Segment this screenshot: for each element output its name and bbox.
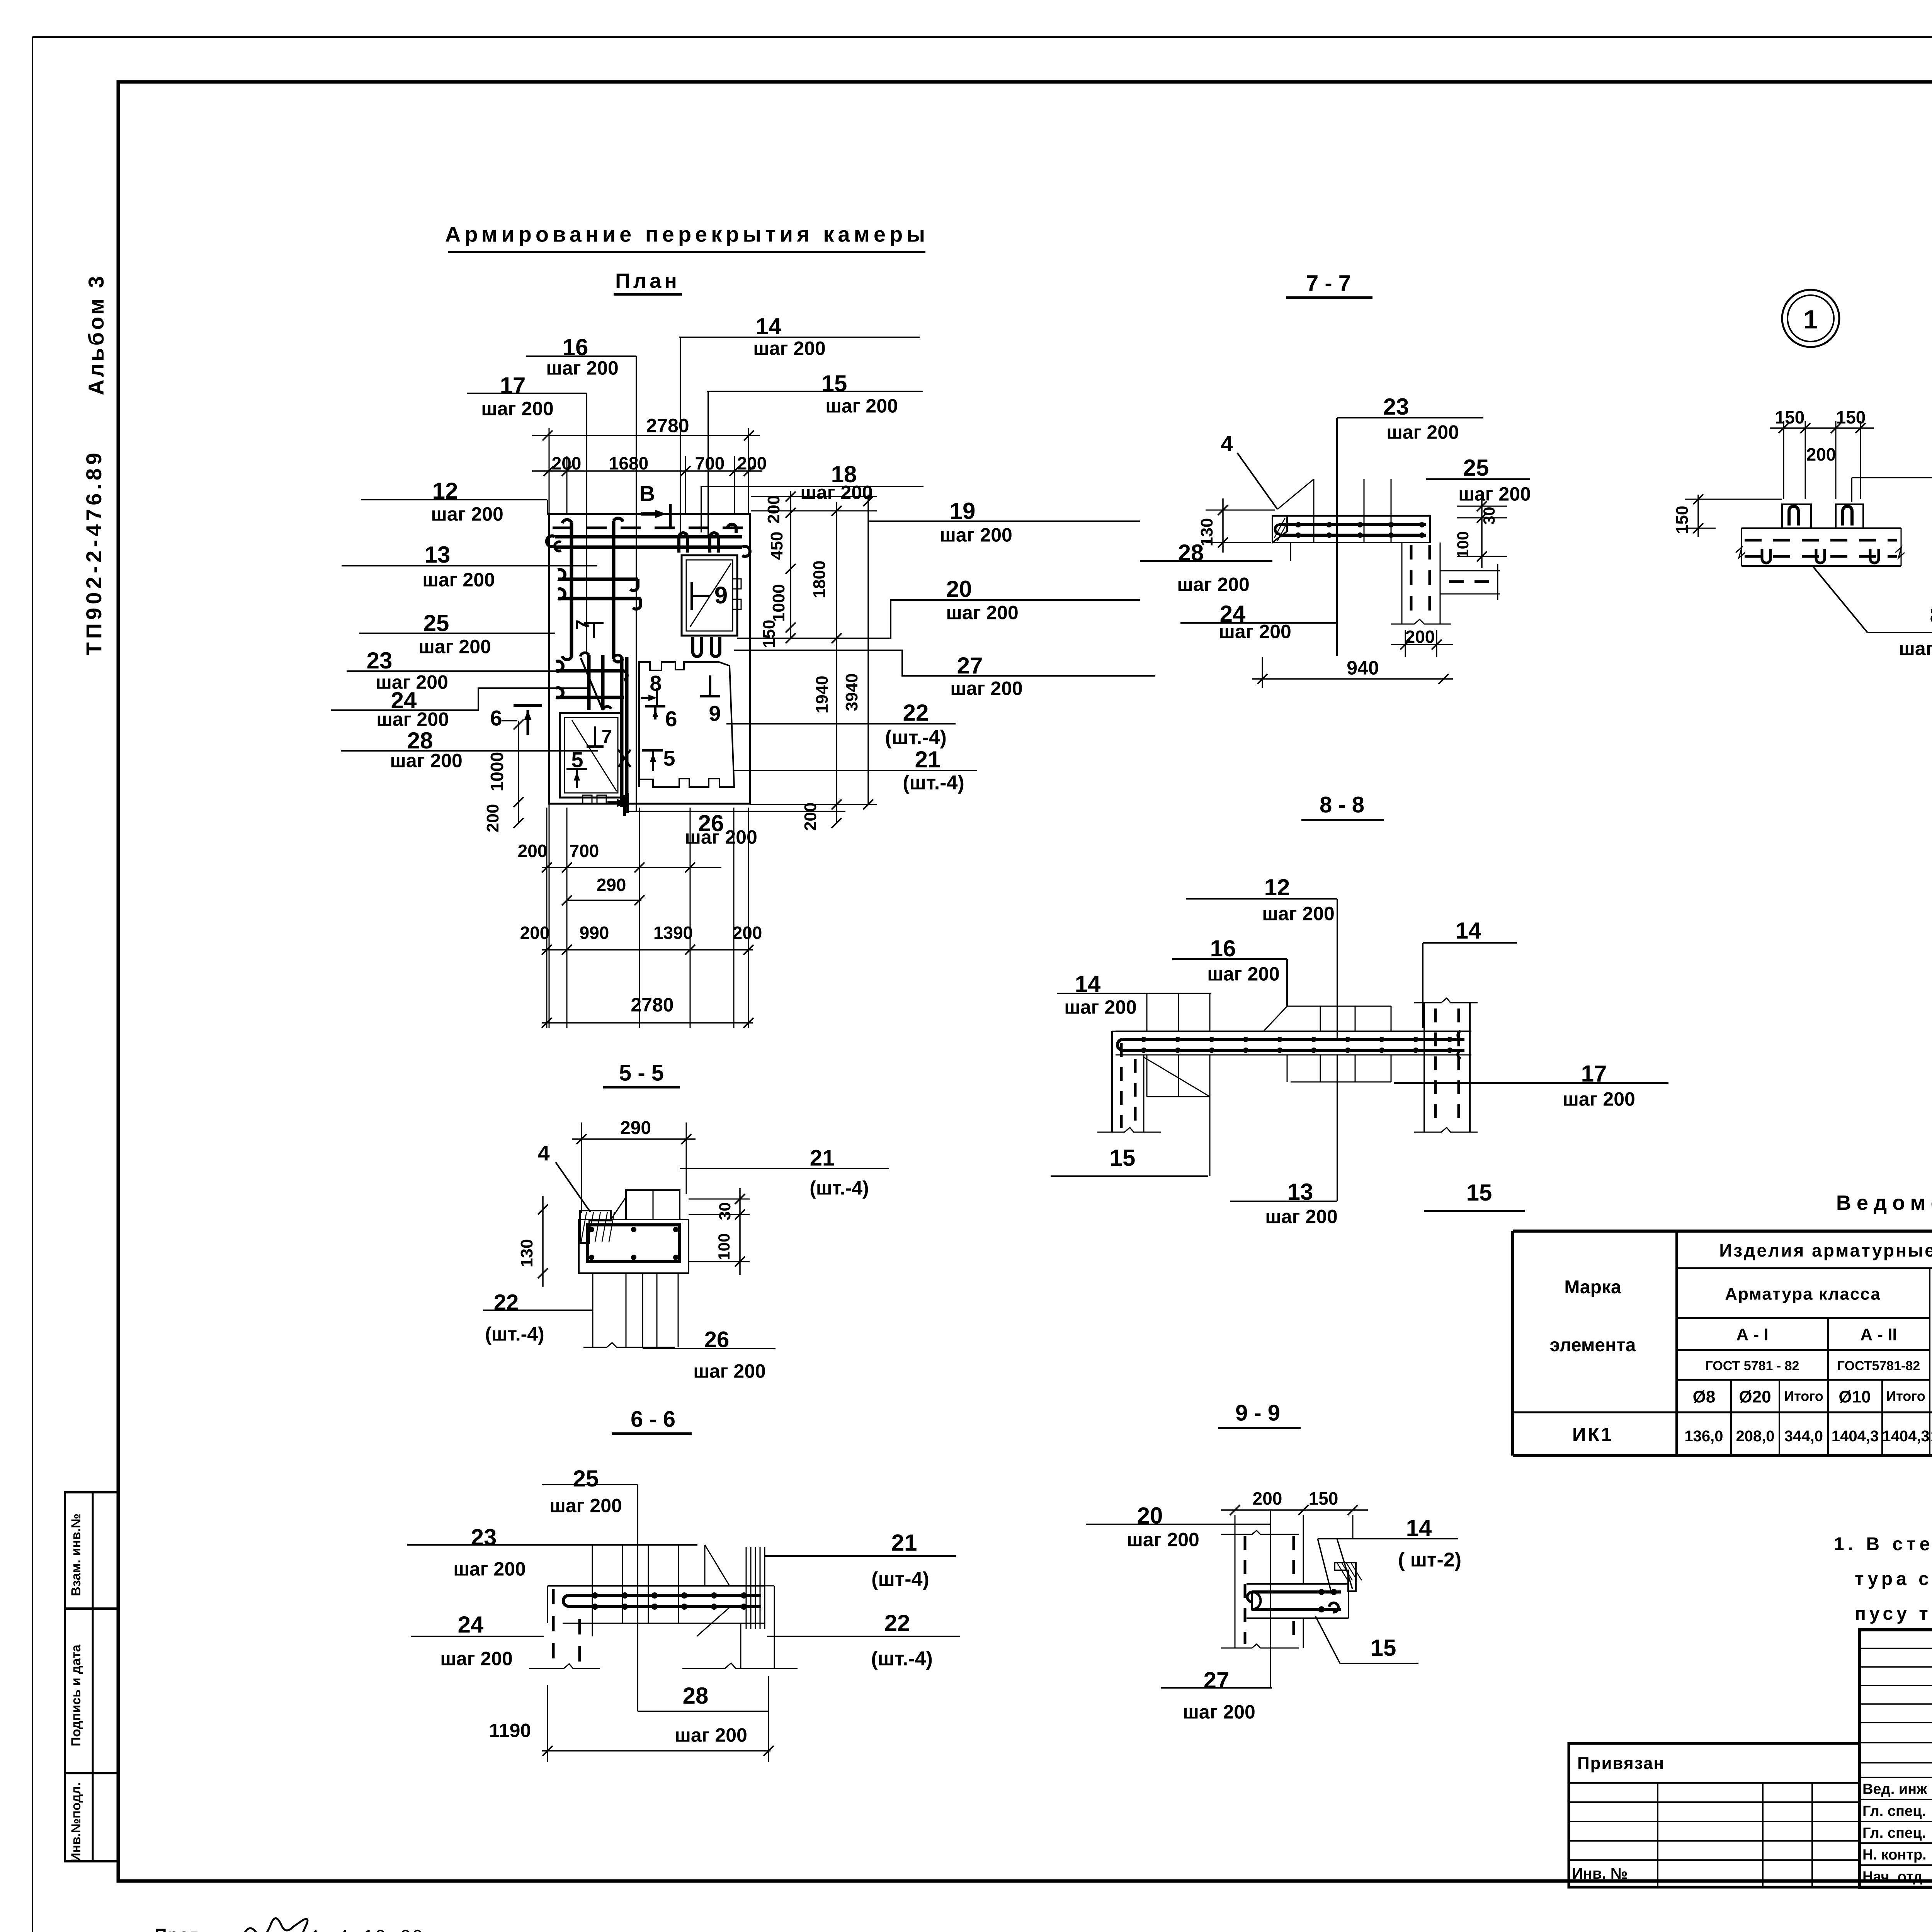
svg-text:Подпись и дата: Подпись и дата [69,1644,83,1747]
svg-text:шаг 200: шаг 200 [825,395,898,417]
svg-text:344,0: 344,0 [1784,1428,1823,1445]
svg-text:14: 14 [1406,1515,1432,1541]
svg-text:шаг 200: шаг 200 [546,357,619,379]
svg-text:1190: 1190 [489,1720,531,1742]
svg-text:15: 15 [1466,1180,1492,1206]
svg-text:200: 200 [801,803,820,831]
svg-text:17: 17 [500,372,526,398]
svg-text:200: 200 [483,804,502,832]
svg-text:1404,3: 1404,3 [1882,1428,1929,1445]
svg-text:шаг 200: шаг 200 [1458,483,1531,505]
svg-text:6: 6 [665,707,677,731]
svg-text:150: 150 [1309,1488,1338,1509]
svg-text:шаг 200: шаг 200 [753,338,826,359]
svg-text:9: 9 [714,582,728,609]
svg-text:шаг 200: шаг 200 [685,827,757,848]
svg-text:30: 30 [716,1202,734,1220]
svg-text:Армирование перекрытия камер: Армирование перекрытия камеры [445,222,929,247]
svg-text:22: 22 [494,1290,519,1315]
svg-text:шаг 200: шаг 200 [376,709,449,730]
svg-text:2780: 2780 [631,994,673,1016]
svg-text:12: 12 [1264,874,1290,900]
svg-text:шаг 200: шаг 200 [693,1361,766,1382]
svg-text:1: 1 [1803,305,1818,334]
svg-text:15: 15 [821,371,847,396]
svg-text:6 - 6: 6 - 6 [631,1406,675,1432]
svg-text:9 - 9: 9 - 9 [1235,1400,1280,1425]
svg-text:100: 100 [1454,531,1472,558]
svg-text:шаг 200: шаг 200 [1219,621,1291,643]
svg-text:шаг 200: шаг 200 [946,602,1019,624]
svg-text:ИК1: ИК1 [1572,1424,1613,1446]
svg-text:1000: 1000 [769,584,788,622]
svg-text:шаг 200: шаг 200 [1207,963,1280,985]
svg-text:7: 7 [573,619,593,630]
svg-text:Пров.: Пров. [155,1925,207,1932]
svg-text:150: 150 [1775,407,1805,427]
svg-text:940: 940 [1347,657,1379,679]
svg-text:200: 200 [518,841,548,861]
svg-text:23: 23 [471,1524,497,1550]
svg-text:Вед. инж: Вед. инж [1862,1781,1927,1798]
svg-text:ГОСТ 5781 - 82: ГОСТ 5781 - 82 [1706,1359,1799,1373]
svg-text:Ø10: Ø10 [1838,1387,1871,1406]
svg-text:25: 25 [1463,455,1489,481]
svg-text:шаг 200: шаг 200 [418,636,491,658]
svg-text:2780: 2780 [646,415,689,437]
svg-text:Гл. спец.: Гл. спец. [1862,1825,1926,1841]
svg-text:Инв.№подл.: Инв.№подл. [69,1782,83,1862]
svg-text:План: План [615,269,680,293]
svg-text:4: 4 [537,1141,549,1165]
svg-text:150: 150 [1673,506,1692,534]
svg-text:шаг 200: шаг 200 [1177,574,1250,595]
svg-text:20: 20 [946,576,972,602]
svg-text:шаг 200: шаг 200 [422,569,495,591]
svg-text:6: 6 [490,706,502,730]
svg-text:шаг 200: шаг 200 [440,1648,513,1670]
svg-text:шаг 200: шаг 200 [675,1725,747,1746]
svg-text:Нач. отд: Нач. отд [1862,1869,1922,1885]
svg-text:8: 8 [1930,602,1932,628]
svg-text:14: 14 [756,313,782,339]
svg-text:(шт.-4): (шт.-4) [885,726,947,749]
svg-text:Итого: Итого [1784,1388,1823,1404]
svg-text:5: 5 [663,746,675,770]
svg-text:А - II: А - II [1860,1325,1897,1344]
svg-text:290: 290 [597,875,626,895]
svg-text:ТП902-2-476.89: ТП902-2-476.89 [82,449,106,656]
svg-text:130: 130 [517,1239,536,1267]
svg-text:990: 990 [580,923,609,943]
svg-text:150: 150 [760,620,779,648]
svg-text:шаг 200: шаг 200 [1386,422,1459,443]
svg-text:1748,3: 1748,3 [1930,1428,1932,1445]
svg-text:шаг 200: шаг 200 [940,524,1012,546]
svg-text:21: 21 [810,1145,835,1170]
svg-text:200: 200 [1253,1488,1282,1509]
svg-text:28: 28 [683,1683,709,1709]
svg-text:(шт-4): (шт-4) [871,1568,929,1590]
svg-text:27: 27 [1204,1667,1230,1693]
svg-text:Взам. инв.№: Взам. инв.№ [69,1514,83,1596]
svg-text:25: 25 [573,1466,599,1492]
svg-text:Гл. спец.: Гл. спец. [1862,1803,1926,1820]
svg-text:21: 21 [915,747,941,772]
svg-text:15: 15 [1110,1145,1136,1171]
svg-text:4. 12. 90 г: 4. 12. 90 г [338,1927,439,1932]
svg-text:шаг 200: шаг 200 [549,1495,622,1517]
svg-text:Марка: Марка [1564,1277,1621,1298]
svg-text:Изделия арматурные: Изделия арматурные [1719,1240,1932,1260]
svg-text:(шт.-4): (шт.-4) [810,1177,869,1199]
svg-text:30: 30 [1480,507,1498,525]
svg-text:Инв. №: Инв. № [1572,1865,1628,1882]
svg-text:В: В [639,481,655,506]
svg-text:19: 19 [950,498,976,524]
svg-text:пусу трубы.: пусу трубы. [1855,1604,1932,1624]
svg-text:25: 25 [423,610,449,636]
svg-text:23: 23 [367,648,393,673]
svg-text:1404,3: 1404,3 [1832,1428,1879,1445]
svg-text:1. В стенах камеры в места: 1. В стенах камеры в местах установки по… [1834,1534,1932,1554]
svg-text:200: 200 [764,495,783,524]
svg-text:27: 27 [957,653,983,679]
svg-text:шаг 200: шаг 200 [390,750,463,772]
svg-text:шаг 200: шаг 200 [800,482,873,503]
svg-text:13: 13 [425,542,451,568]
svg-text:15: 15 [1371,1635,1396,1661]
svg-text:Ø8: Ø8 [1693,1387,1716,1406]
svg-text:элемента: элемента [1550,1335,1636,1355]
svg-text:( шт-2): ( шт-2) [1398,1549,1461,1571]
svg-text:А - I: А - I [1736,1325,1768,1344]
svg-text:(шт.-4): (шт.-4) [871,1648,933,1670]
svg-text:14: 14 [1456,918,1481,944]
svg-text:290: 290 [620,1118,651,1138]
svg-text:200: 200 [520,923,550,943]
svg-text:23: 23 [1383,394,1409,420]
svg-text:ГОСТ5781-82: ГОСТ5781-82 [1837,1359,1920,1373]
svg-text:шаг 200: шаг 200 [1563,1088,1635,1110]
svg-text:шаг 200: шаг 200 [1064,997,1137,1018]
svg-text:(шт.-4): (шт.-4) [903,772,964,794]
svg-text:шаг 200: шаг 200 [1262,903,1335,925]
svg-text:Н. контр.: Н. контр. [1862,1847,1927,1863]
svg-text:шаг 200: шаг 200 [431,503,503,525]
svg-text:9: 9 [709,701,721,726]
svg-text:136,0: 136,0 [1684,1428,1723,1445]
svg-text:Ведомость расхода стали н: Ведомость расхода стали на один элемент,… [1836,1191,1932,1214]
svg-text:7: 7 [602,727,612,747]
svg-text:21: 21 [891,1530,917,1556]
svg-text:208,0: 208,0 [1736,1428,1774,1445]
svg-text:22: 22 [903,700,929,726]
svg-text:Арматура класса: Арматура класса [1725,1284,1881,1303]
svg-text:Итого: Итого [1886,1388,1925,1404]
svg-text:3940: 3940 [842,673,861,711]
svg-text:200: 200 [733,923,762,943]
svg-text:200: 200 [1806,444,1836,464]
svg-text:4: 4 [1221,432,1233,456]
svg-text:700: 700 [570,841,599,861]
svg-text:5 - 5: 5 - 5 [619,1060,664,1085]
svg-text:Ø20: Ø20 [1739,1387,1771,1406]
svg-text:шаг 200: шаг 200 [453,1558,526,1580]
svg-text:1940: 1940 [813,675,832,713]
svg-text:Альбом 3: Альбом 3 [84,274,108,395]
svg-text:16: 16 [1210,935,1236,961]
svg-text:8 - 8: 8 - 8 [1320,792,1364,817]
svg-text:шаг 200: шаг 200 [1899,638,1932,660]
svg-text:(шт.-4): (шт.-4) [485,1323,544,1345]
svg-text:1000: 1000 [487,752,507,791]
svg-text:1390: 1390 [653,923,693,943]
svg-text:450: 450 [767,532,786,560]
svg-text:24: 24 [458,1612,484,1638]
svg-text:7 - 7: 7 - 7 [1306,270,1351,296]
svg-text:шаг 200: шаг 200 [481,398,554,420]
svg-text:шаг 200: шаг 200 [1265,1206,1338,1228]
svg-text:22: 22 [884,1610,910,1636]
svg-text:шаг 200: шаг 200 [950,678,1023,699]
svg-text:тура стен разрезается, отгиб: тура стен разрезается, отгибается и прив… [1855,1569,1932,1589]
svg-text:100: 100 [715,1233,733,1260]
svg-text:1800: 1800 [810,560,829,598]
svg-text:Привязан: Привязан [1577,1754,1665,1773]
svg-text:шаг 200: шаг 200 [1127,1529,1199,1551]
svg-text:шаг 200: шаг 200 [1183,1701,1255,1723]
